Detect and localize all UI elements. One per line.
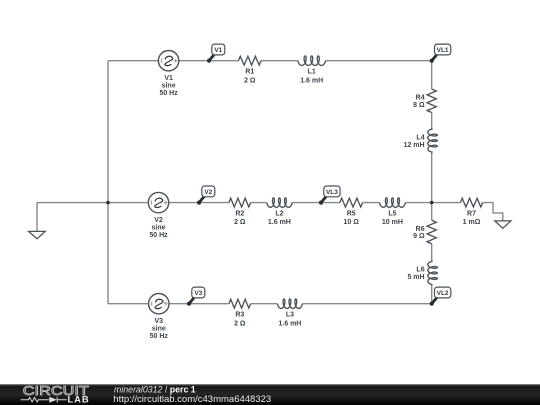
svg-text:LAB: LAB <box>68 395 90 405</box>
svg-text:50 Hz: 50 Hz <box>149 232 168 239</box>
node flag VL1 <box>430 44 451 63</box>
node flag V2 <box>197 186 215 205</box>
svg-text:R6: R6 <box>416 226 425 233</box>
node flag VL2 <box>430 287 451 306</box>
wire <box>483 203 503 221</box>
label R2 2 ohm <box>234 211 246 227</box>
svg-text:L1: L1 <box>308 69 316 76</box>
svg-text:L4: L4 <box>416 134 424 141</box>
label L6 5 mH <box>407 267 424 281</box>
svg-text:sine: sine <box>162 83 176 90</box>
ground <box>495 221 511 228</box>
wire <box>36 203 38 232</box>
svg-text:R7: R7 <box>467 211 476 218</box>
svg-text:V2: V2 <box>154 217 163 224</box>
wire <box>107 61 109 304</box>
label R4 8 ohm <box>413 95 425 109</box>
svg-text:50 Hz: 50 Hz <box>159 90 178 97</box>
wire <box>405 202 431 204</box>
svg-text:R3: R3 <box>235 312 244 319</box>
label V2 sine 50 Hz <box>149 217 168 239</box>
resistor R4 <box>427 89 436 112</box>
wire <box>431 61 433 89</box>
svg-text:9 Ω: 9 Ω <box>413 233 425 240</box>
svg-text:VL2: VL2 <box>437 290 449 297</box>
svg-text:L5: L5 <box>388 211 396 218</box>
svg-text:R1: R1 <box>245 69 254 76</box>
label R1 2 ohm <box>244 69 256 85</box>
wire <box>108 202 148 204</box>
resistor R2 <box>229 198 251 207</box>
wire <box>108 60 158 62</box>
svg-text:10 mH: 10 mH <box>382 219 403 226</box>
inductor L5 <box>380 198 406 208</box>
svg-text:R4: R4 <box>416 95 425 102</box>
wire <box>169 303 229 305</box>
inductor L4 <box>428 129 438 152</box>
svg-text:V3: V3 <box>155 318 164 325</box>
inductor L3 <box>277 299 302 309</box>
voltage source V2 <box>148 192 168 212</box>
svg-text:sine: sine <box>152 326 166 333</box>
svg-text:R5: R5 <box>347 211 356 218</box>
wire <box>251 202 267 204</box>
svg-text:10 Ω: 10 Ω <box>344 219 360 226</box>
wire <box>108 303 149 305</box>
inductor L1 <box>298 56 326 66</box>
svg-text:50 Hz: 50 Hz <box>150 333 169 340</box>
svg-text:mineral0312 / perc 1: mineral0312 / perc 1 <box>114 384 196 394</box>
svg-text:V2: V2 <box>204 189 212 196</box>
svg-text:V1: V1 <box>164 75 173 82</box>
ground <box>29 231 46 238</box>
junction node VL3-R6 <box>430 201 434 205</box>
inductor L2 <box>267 198 293 208</box>
node flag V3 <box>187 287 205 306</box>
resistor R3 <box>229 299 251 308</box>
wire <box>251 303 278 305</box>
svg-text:2 Ω: 2 Ω <box>244 77 256 84</box>
wire <box>431 285 433 304</box>
svg-text:L3: L3 <box>286 312 294 319</box>
label R6 9 ohm <box>413 226 425 240</box>
svg-text:http://circuitlab.com/c43mma64: http://circuitlab.com/c43mma6448323 <box>113 394 271 405</box>
svg-text:R2: R2 <box>235 211 244 218</box>
svg-text:1.6 mH: 1.6 mH <box>268 219 291 226</box>
label R5 10 ohm <box>344 211 360 227</box>
label L4 12 mH <box>404 134 425 148</box>
wire <box>37 202 108 204</box>
junction node <box>106 201 110 205</box>
voltage source V1 <box>158 51 178 71</box>
wire <box>431 244 433 262</box>
voltage source V3 <box>149 294 169 314</box>
wire <box>432 202 461 204</box>
wire <box>302 303 431 305</box>
label R7 1 milliohm <box>463 211 481 227</box>
wire <box>179 60 239 62</box>
label R3 2 ohm <box>234 312 246 328</box>
label V3 sine 50 Hz <box>150 318 169 340</box>
svg-text:VL3: VL3 <box>326 189 338 196</box>
resistor R1 <box>238 56 261 65</box>
inductor L6 <box>428 261 438 285</box>
svg-text:1 mΩ: 1 mΩ <box>463 219 481 226</box>
node flag VL3 <box>319 186 340 205</box>
wire <box>292 202 340 204</box>
label L5 10 mH <box>382 211 403 227</box>
svg-text:2 Ω: 2 Ω <box>234 219 246 226</box>
label L1 1.6 mH <box>300 69 323 85</box>
label L2 1.6 mH <box>268 211 291 227</box>
label L3 1.6 mH <box>278 312 301 328</box>
resistor R7 <box>460 198 482 207</box>
svg-text:1.6 mH: 1.6 mH <box>278 320 301 327</box>
svg-text:8 Ω: 8 Ω <box>413 102 425 109</box>
junction node VL1 <box>430 59 434 63</box>
wire <box>261 60 298 62</box>
resistor R6 <box>427 220 436 244</box>
svg-text:2 Ω: 2 Ω <box>234 320 246 327</box>
svg-text:5 mH: 5 mH <box>407 274 424 281</box>
node flag V1 <box>207 44 225 63</box>
wire <box>169 202 229 204</box>
label V1 sine 50 Hz <box>159 75 178 97</box>
svg-text:V1: V1 <box>214 47 222 54</box>
svg-text:L6: L6 <box>416 267 424 274</box>
svg-text:V3: V3 <box>194 290 202 297</box>
wire <box>326 60 432 62</box>
junction node VL2 <box>430 302 434 306</box>
wire <box>431 203 433 221</box>
svg-text:L2: L2 <box>275 211 283 218</box>
wire <box>431 152 433 202</box>
wire <box>431 113 433 129</box>
wire <box>363 202 380 204</box>
svg-text:1.6 mH: 1.6 mH <box>300 77 323 84</box>
svg-text:sine: sine <box>151 224 165 231</box>
svg-text:12 mH: 12 mH <box>404 142 425 149</box>
resistor R5 <box>340 198 363 207</box>
svg-text:VL1: VL1 <box>437 47 449 54</box>
CircuitLab footer <box>0 383 540 405</box>
